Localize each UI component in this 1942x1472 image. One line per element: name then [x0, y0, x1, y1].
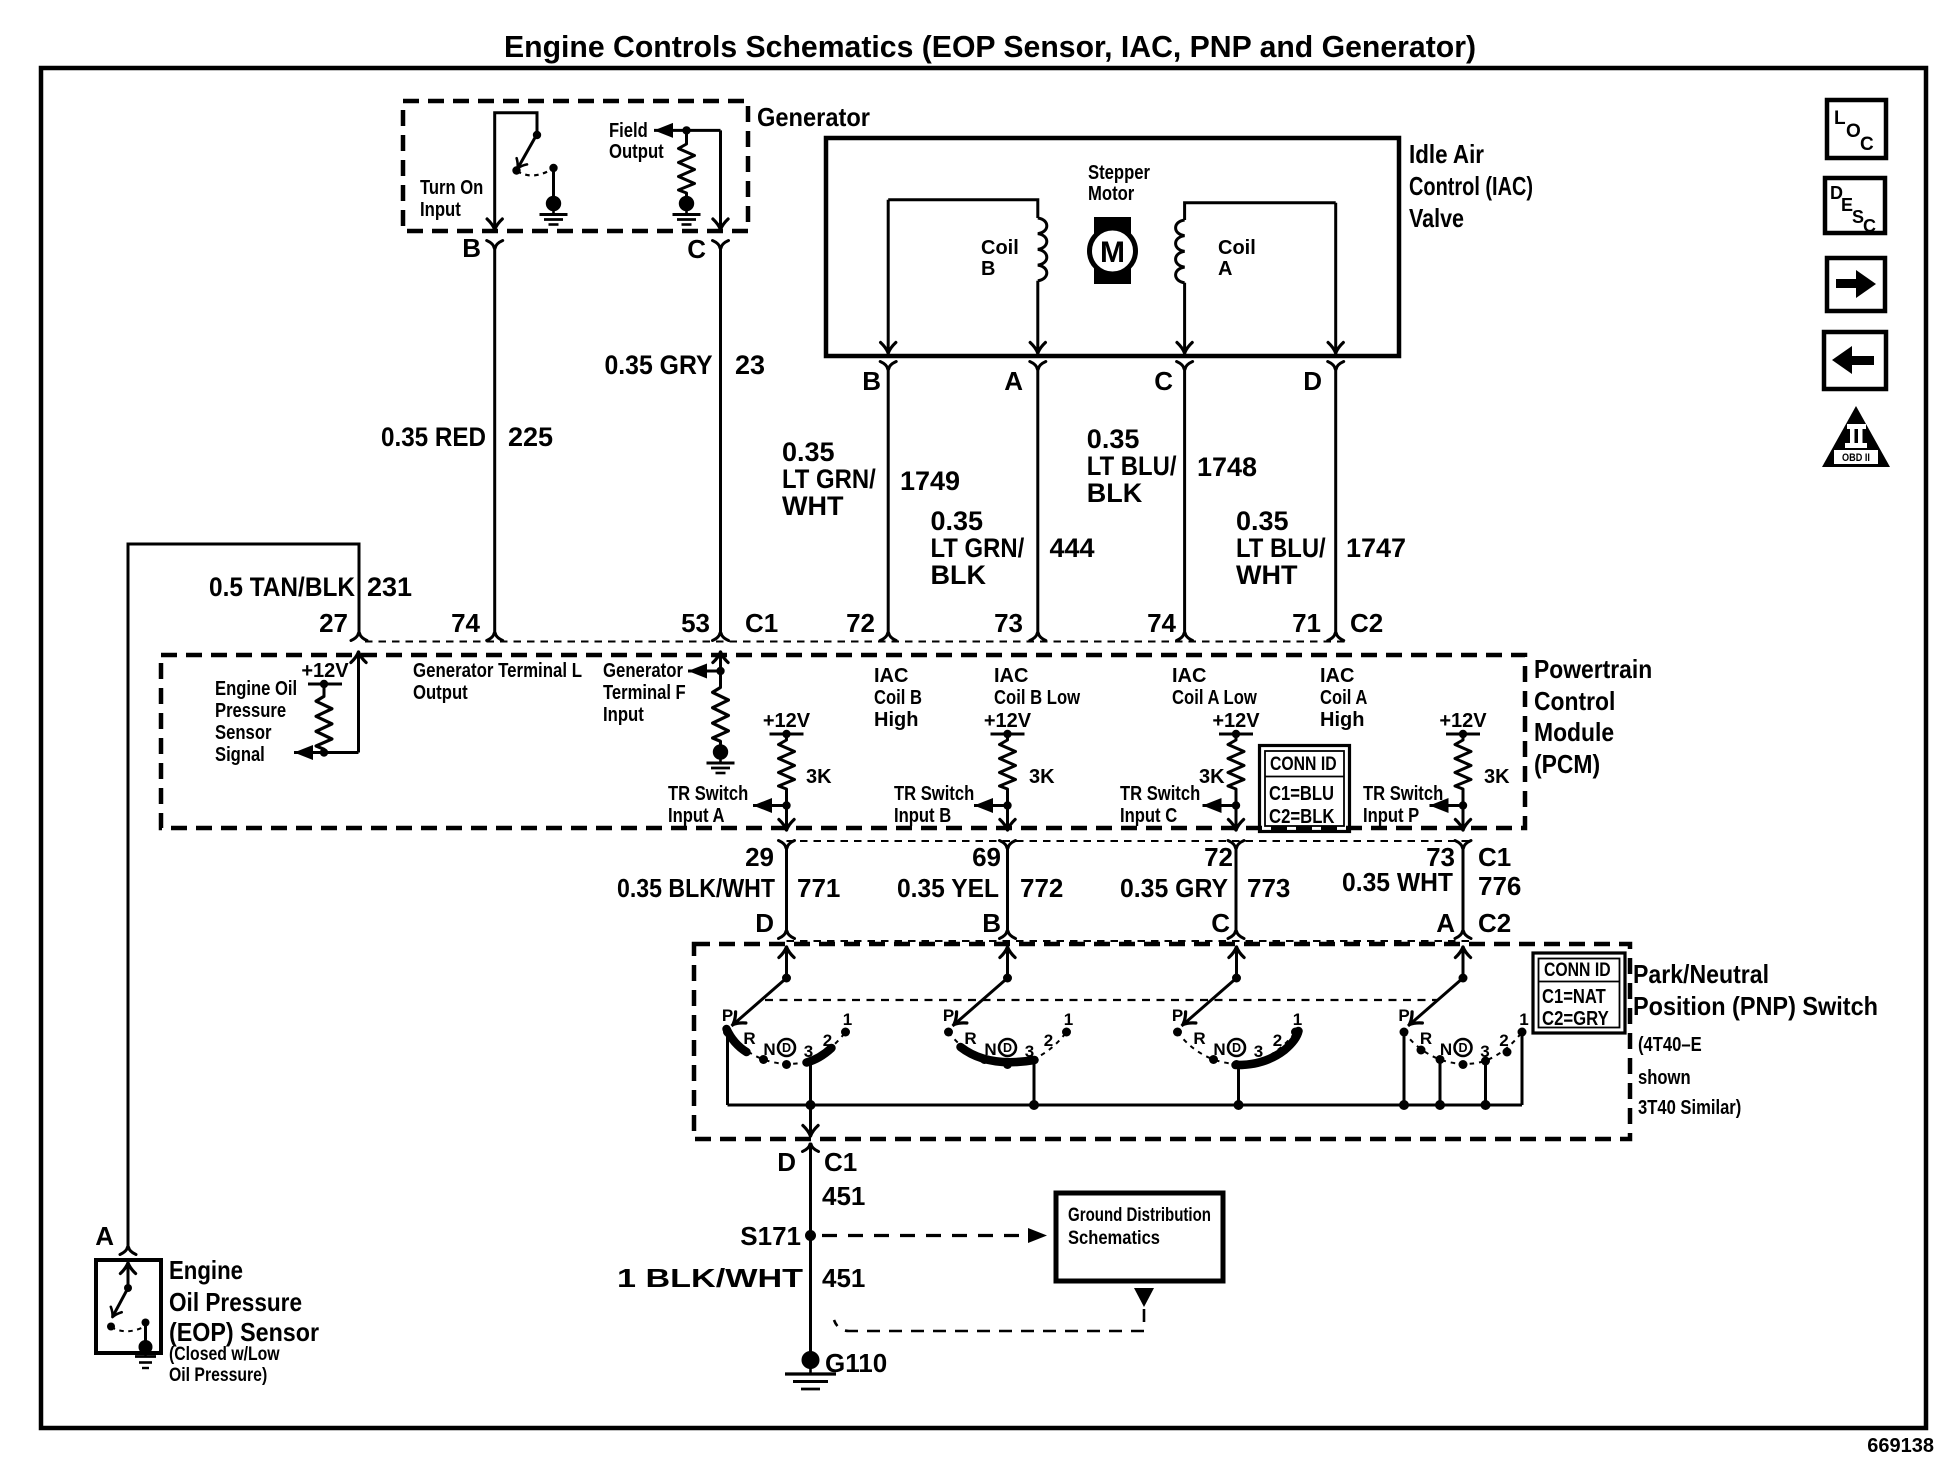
- svg-text:Engine Oil: Engine Oil: [215, 678, 297, 700]
- connector fork D/C1: [803, 1144, 819, 1152]
- icon LOC: [1827, 100, 1886, 158]
- wire contact D to bus: [1237, 1065, 1240, 1105]
- svg-text:3K: 3K: [1199, 766, 1225, 788]
- svg-text:451: 451: [822, 1263, 865, 1293]
- svg-text:C2=GRY: C2=GRY: [1542, 1008, 1609, 1030]
- wire contact 3 to bus: [809, 1064, 812, 1105]
- wire down to terminal 29: [785, 792, 788, 827]
- wire IAC B, circuit 1749: [887, 369, 890, 633]
- mechanical linkage dashed line: [765, 999, 1438, 1001]
- wire EOP sensor to PCM terminal 27, circuit 231: [128, 544, 359, 1247]
- arrow coil B high to terminal B: [881, 343, 896, 354]
- svg-text:3T40 Similar): 3T40 Similar): [1638, 1097, 1741, 1119]
- svg-text:O: O: [1846, 121, 1861, 142]
- wire up to terminal 27: [357, 653, 360, 753]
- svg-text:Pressure: Pressure: [215, 700, 286, 722]
- svg-text:A: A: [1436, 908, 1455, 938]
- svg-text:A: A: [1004, 366, 1023, 396]
- svg-text:0.5 TAN/BLK: 0.5 TAN/BLK: [209, 572, 355, 602]
- connector line C1/C2 (thin dashed): [365, 641, 1345, 643]
- EOP signal arrow: [294, 745, 313, 760]
- svg-text:1 BLK/WHT: 1 BLK/WHT: [617, 1263, 803, 1293]
- svg-text:Module: Module: [1534, 717, 1614, 747]
- connector fork A: [120, 1247, 136, 1255]
- ground distribution schematics box: [1056, 1193, 1223, 1281]
- svg-text:Output: Output: [609, 141, 664, 163]
- svg-text:Coil B: Coil B: [874, 687, 922, 709]
- svg-text:Oil Pressure: Oil Pressure: [169, 1287, 302, 1317]
- rotary switch TR-P: [1398, 947, 1528, 1069]
- svg-text:Coil: Coil: [981, 237, 1019, 259]
- wire contact 3 to bus: [1484, 1061, 1487, 1105]
- CONN ID box (PNP): [1533, 953, 1625, 1033]
- svg-text:+12V: +12V: [1212, 710, 1260, 732]
- svg-text:Ground Distribution: Ground Distribution: [1068, 1205, 1211, 1226]
- svg-text:TR Switch: TR Switch: [668, 783, 748, 805]
- svg-text:772: 772: [1020, 873, 1063, 903]
- switch TR-B contact segment R-3: [961, 1047, 1035, 1062]
- svg-text:23: 23: [735, 350, 765, 380]
- wire IAC A, circuit 444: [1036, 369, 1039, 633]
- svg-text:Idle Air: Idle Air: [1409, 139, 1484, 169]
- svg-text:C: C: [687, 234, 706, 264]
- svg-text:0.35: 0.35: [1087, 424, 1140, 454]
- EOP switch pivot: [124, 1284, 132, 1292]
- svg-text:0.35 WHT: 0.35 WHT: [1342, 867, 1453, 897]
- TR input B arrow: [974, 798, 993, 813]
- wire down to terminal 72: [1235, 792, 1238, 827]
- switch TR-C contact segment D-1: [1236, 1031, 1299, 1065]
- PNP switch box: [694, 944, 1630, 1139]
- wire P contact to bus: [726, 1034, 729, 1105]
- svg-text:G110: G110: [825, 1348, 887, 1378]
- svg-text:C1=BLU: C1=BLU: [1269, 783, 1334, 805]
- svg-text:Input A: Input A: [668, 805, 725, 827]
- svg-text:Control (IAC): Control (IAC): [1409, 171, 1533, 201]
- svg-text:Motor: Motor: [1088, 183, 1134, 205]
- splice S171: [805, 1230, 816, 1241]
- ground (field winding): [673, 196, 701, 224]
- coil A winding: [1176, 203, 1336, 352]
- terminal F pointer arrow: [688, 664, 707, 679]
- arrow up inside EOP sensor: [120, 1263, 135, 1274]
- svg-text:High: High: [874, 709, 918, 731]
- svg-text:Input C: Input C: [1120, 805, 1177, 827]
- resistor (EOP pullup): [323, 684, 326, 692]
- svg-text:OBD II: OBD II: [1842, 452, 1870, 464]
- svg-text:TR Switch: TR Switch: [1363, 783, 1443, 805]
- wire down to terminal 73: [1462, 792, 1465, 827]
- svg-text:74: 74: [1147, 608, 1176, 638]
- svg-text:BLK: BLK: [931, 560, 987, 590]
- wire IAC D, circuit 1747: [1334, 369, 1337, 633]
- svg-text:451: 451: [822, 1181, 865, 1211]
- svg-text:High: High: [1320, 709, 1364, 731]
- wire N contact to bus: [1439, 1060, 1442, 1106]
- svg-text:+12V: +12V: [763, 710, 811, 732]
- EOP fixed contact: [142, 1319, 150, 1327]
- svg-text:LT BLU/: LT BLU/: [1087, 451, 1177, 481]
- svg-text:72: 72: [1204, 842, 1233, 872]
- svg-text:0.35 RED: 0.35 RED: [381, 422, 486, 452]
- ground G110: [785, 1352, 836, 1390]
- svg-text:B: B: [862, 366, 881, 396]
- arrow coil A high to terminal D: [1328, 343, 1343, 354]
- svg-text:773: 773: [1247, 873, 1290, 903]
- svg-text:74: 74: [451, 608, 480, 638]
- svg-text:CONN ID: CONN ID: [1270, 754, 1337, 775]
- svg-text:WHT: WHT: [1236, 560, 1298, 590]
- svg-text:CONN ID: CONN ID: [1544, 960, 1611, 981]
- svg-text:53: 53: [681, 608, 710, 638]
- svg-text:Schematics: Schematics: [1068, 1228, 1160, 1249]
- svg-text:71: 71: [1292, 608, 1321, 638]
- wire 773: [1235, 848, 1238, 931]
- svg-text:Input B: Input B: [894, 805, 951, 827]
- motor M symbol: [1094, 217, 1131, 284]
- svg-text:(4T40–E: (4T40–E: [1638, 1034, 1702, 1056]
- icon back arrow: [1824, 332, 1886, 389]
- svg-text:(EOP) Sensor: (EOP) Sensor: [169, 1317, 319, 1347]
- svg-text:+12V: +12V: [984, 710, 1032, 732]
- svg-text:0.35: 0.35: [1236, 506, 1289, 536]
- IAC valve box: [826, 138, 1399, 356]
- icon forward arrow: [1827, 258, 1885, 311]
- svg-text:B: B: [982, 908, 1001, 938]
- svg-text:C1=NAT: C1=NAT: [1542, 986, 1606, 1008]
- svg-text:771: 771: [797, 873, 840, 903]
- PCM box: [161, 655, 1525, 828]
- resistor 3K (input P): [1455, 736, 1471, 792]
- svg-text:IAC: IAC: [1172, 665, 1206, 687]
- svg-text:C: C: [1860, 134, 1874, 155]
- svg-text:Coil A Low: Coil A Low: [1172, 687, 1257, 709]
- svg-text:A: A: [1218, 258, 1232, 280]
- relay contact to ground: [549, 164, 557, 172]
- svg-text:Coil A: Coil A: [1320, 687, 1367, 709]
- svg-text:3K: 3K: [1029, 766, 1055, 788]
- generator box: [403, 101, 748, 231]
- svg-text:3K: 3K: [1484, 766, 1510, 788]
- svg-text:29: 29: [745, 842, 774, 872]
- connector line C2 (thin dashed): [787, 940, 1471, 942]
- svg-text:WHT: WHT: [782, 491, 844, 521]
- relay contact travel arc: [517, 169, 553, 176]
- svg-text:27: 27: [319, 608, 348, 638]
- icon DESC: [1825, 178, 1885, 236]
- reference arrow below box: [1134, 1288, 1154, 1307]
- switch TR-A contact segment 3-2: [807, 1048, 832, 1063]
- svg-text:Valve: Valve: [1409, 203, 1464, 233]
- TR input P arrow: [1430, 798, 1449, 813]
- svg-text:L: L: [1834, 108, 1846, 129]
- svg-text:IAC: IAC: [874, 665, 908, 687]
- svg-text:M: M: [1100, 236, 1125, 269]
- arrow up into terminal 53: [713, 652, 728, 663]
- TR input A arrow: [753, 798, 772, 813]
- common bus wire: [728, 1104, 1523, 1107]
- connector fork terminal C: [713, 241, 729, 249]
- svg-text:Coil B Low: Coil B Low: [994, 687, 1080, 709]
- rotary switch TR-A: [722, 947, 852, 1069]
- svg-text:72: 72: [846, 608, 875, 638]
- svg-text:Input P: Input P: [1363, 805, 1419, 827]
- svg-text:444: 444: [1050, 533, 1095, 563]
- arrow coil A low to terminal C: [1177, 343, 1192, 354]
- svg-text:Signal: Signal: [215, 744, 265, 766]
- wire contact 1 to bus: [1521, 1032, 1524, 1105]
- arrow coil B low to terminal A: [1030, 343, 1045, 354]
- svg-text:C: C: [1154, 366, 1173, 396]
- svg-text:C1: C1: [745, 608, 778, 638]
- wire: field output to terminal C: [719, 130, 722, 229]
- rotary switch TR-B: [943, 947, 1073, 1069]
- svg-text:TR Switch: TR Switch: [894, 783, 974, 805]
- svg-text:B: B: [981, 258, 995, 280]
- arrow into terminal B: [487, 219, 502, 230]
- svg-text:Engine Controls Schematics (EO: Engine Controls Schematics (EOP Sensor, …: [504, 29, 1476, 64]
- svg-text:BLK: BLK: [1087, 478, 1143, 508]
- wire 771: [785, 848, 788, 931]
- wire P contact to bus: [1403, 1032, 1406, 1105]
- svg-text:A: A: [95, 1221, 114, 1251]
- ground (terminal F): [707, 745, 735, 773]
- wire 776: [1462, 848, 1465, 931]
- ground (EOP sensor): [135, 1341, 156, 1369]
- svg-text:Sensor: Sensor: [215, 722, 272, 744]
- switch TR-P extra contact dots R 3 2: [1417, 1046, 1512, 1066]
- svg-text:1748: 1748: [1197, 452, 1257, 482]
- svg-text:C2: C2: [1350, 608, 1383, 638]
- svg-text:shown: shown: [1638, 1067, 1691, 1089]
- svg-text:+12V: +12V: [1439, 710, 1487, 732]
- svg-text:Generator: Generator: [603, 660, 683, 682]
- svg-text:Generator Terminal L: Generator Terminal L: [413, 660, 582, 682]
- resistor 3K (input C): [1228, 736, 1244, 792]
- svg-text:231: 231: [367, 572, 412, 602]
- svg-text:B: B: [462, 233, 481, 263]
- svg-text:(PCM): (PCM): [1534, 749, 1600, 779]
- wire IAC C, circuit 1748: [1183, 369, 1186, 633]
- svg-text:Park/Neutral: Park/Neutral: [1633, 959, 1769, 989]
- TR input C arrow: [1203, 798, 1222, 813]
- svg-text:Stepper: Stepper: [1088, 162, 1150, 184]
- svg-text:73: 73: [994, 608, 1023, 638]
- resistor (generator field winding): [685, 130, 688, 140]
- EOP switch arm: [113, 1288, 128, 1316]
- svg-text:69: 69: [972, 842, 1001, 872]
- svg-text:Control: Control: [1534, 686, 1615, 716]
- svg-text:0.35: 0.35: [782, 437, 835, 467]
- svg-text:IAC: IAC: [994, 665, 1028, 687]
- svg-text:C: C: [1211, 908, 1230, 938]
- svg-text:Oil Pressure): Oil Pressure): [169, 1365, 267, 1386]
- svg-text:C: C: [1863, 216, 1876, 236]
- svg-text:0.35 GRY: 0.35 GRY: [1120, 873, 1228, 903]
- node (field output junction): [682, 126, 690, 134]
- svg-text:Engine: Engine: [169, 1255, 243, 1285]
- svg-text:C1: C1: [824, 1147, 857, 1177]
- wire down to terminal 69: [1006, 792, 1009, 827]
- wire 772: [1006, 848, 1009, 931]
- svg-text:C2: C2: [1478, 908, 1511, 938]
- dashed reference line to ground distribution schematics: [822, 1234, 1028, 1237]
- icon OBD II triangle: [1822, 406, 1890, 467]
- svg-text:LT BLU/: LT BLU/: [1236, 533, 1326, 563]
- svg-text:Generator: Generator: [757, 102, 870, 132]
- EOP contact travel arc: [111, 1326, 146, 1331]
- wire C (generator F), circuit 23: [719, 248, 722, 633]
- svg-text:1749: 1749: [900, 466, 960, 496]
- coil B winding: [888, 200, 1047, 352]
- svg-text:C1: C1: [1478, 842, 1511, 872]
- svg-text:Terminal F: Terminal F: [603, 682, 686, 704]
- svg-text:LT GRN/: LT GRN/: [931, 533, 1025, 563]
- svg-text:Position (PNP) Switch: Position (PNP) Switch: [1633, 991, 1878, 1021]
- CONN ID box (PCM): [1260, 746, 1350, 832]
- resistor 3K (input A): [779, 736, 795, 792]
- svg-text:Input: Input: [420, 199, 461, 221]
- svg-text:D: D: [1303, 366, 1322, 396]
- svg-text:C2=BLK: C2=BLK: [1269, 806, 1335, 828]
- svg-text:+12V: +12V: [301, 660, 349, 682]
- wire B (generator L), circuit 225: [493, 248, 496, 633]
- EOP sensor box: [96, 1260, 161, 1353]
- resistor (terminal F): [713, 683, 729, 745]
- svg-text:0.35 BLK/WHT: 0.35 BLK/WHT: [617, 873, 775, 903]
- connector line C1 (thin dashed): [787, 840, 1471, 842]
- svg-text:Field: Field: [609, 120, 648, 142]
- connector fork terminal B: [487, 241, 503, 249]
- relay switch (generator turn-on): [495, 113, 537, 229]
- wire to G110, circuit 451: [809, 1144, 812, 1352]
- resistor 3K (input B): [1000, 736, 1016, 792]
- svg-text:0.35 GRY: 0.35 GRY: [605, 350, 713, 380]
- svg-text:0.35 YEL: 0.35 YEL: [897, 873, 999, 903]
- svg-text:Turn On: Turn On: [420, 177, 483, 199]
- wire contact 3 to bus: [1033, 1062, 1036, 1105]
- rotary switch TR-C: [1172, 947, 1302, 1069]
- dashed reference path to ground wire: [834, 1309, 1144, 1331]
- svg-text:225: 225: [508, 422, 553, 452]
- switch TR-A contact segment P-R: [727, 1029, 747, 1052]
- svg-text:Coil: Coil: [1218, 237, 1256, 259]
- svg-text:TR Switch: TR Switch: [1120, 783, 1200, 805]
- svg-text:Input: Input: [603, 704, 644, 726]
- svg-text:LT GRN/: LT GRN/: [782, 464, 876, 494]
- svg-text:0.35: 0.35: [931, 506, 984, 536]
- svg-text:Output: Output: [413, 682, 468, 704]
- svg-text:776: 776: [1478, 871, 1521, 901]
- svg-text:IAC: IAC: [1320, 665, 1354, 687]
- svg-text:D: D: [777, 1147, 796, 1177]
- svg-text:(Closed w/Low: (Closed w/Low: [169, 1344, 280, 1365]
- ground (relay): [540, 196, 568, 224]
- svg-text:3K: 3K: [806, 766, 832, 788]
- svg-text:S171: S171: [740, 1221, 801, 1251]
- field output arrow: [654, 123, 673, 138]
- svg-text:1747: 1747: [1346, 533, 1406, 563]
- bus junction nodes: [806, 1100, 816, 1110]
- arrow into terminal C: [713, 219, 728, 230]
- svg-text:669138: 669138: [1867, 1435, 1934, 1457]
- svg-text:Powertrain: Powertrain: [1534, 654, 1652, 684]
- bus exit wire to terminal D: [809, 1105, 812, 1133]
- svg-text:D: D: [755, 908, 774, 938]
